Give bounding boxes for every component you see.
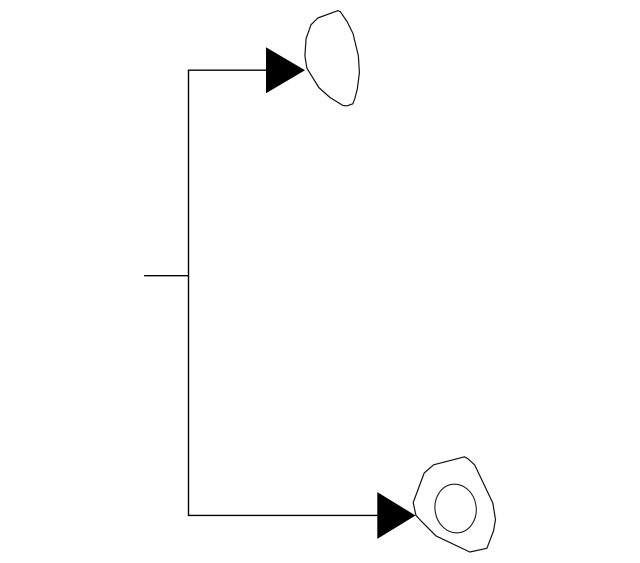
wire: vertical trunk xyxy=(188,70,190,515)
wire: top leader segment xyxy=(188,69,267,71)
inner ring of bottom part xyxy=(432,481,480,535)
part outline: bottom part (grommet/nut blob) xyxy=(413,457,495,552)
part outline: top part (lens/pad blob) xyxy=(305,11,360,106)
wire: middle stub xyxy=(144,275,188,277)
arrowhead: top leader xyxy=(266,47,305,93)
wire: bottom leader segment xyxy=(188,514,378,516)
arrowhead: bottom leader xyxy=(377,492,415,539)
